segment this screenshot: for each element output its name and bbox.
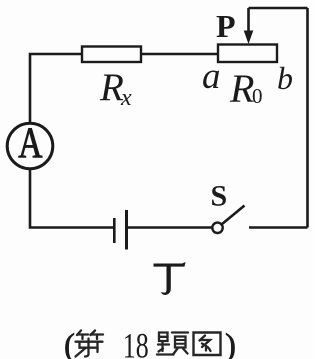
svg-text:0: 0: [252, 84, 263, 108]
svg-text:(: (: [64, 328, 75, 359]
svg-text:A: A: [18, 120, 42, 167]
svg-text:S: S: [211, 180, 228, 213]
svg-text:): ): [225, 328, 236, 359]
svg-text:18: 18: [123, 325, 149, 359]
svg-text:a: a: [202, 56, 221, 97]
svg-text:x: x: [120, 85, 132, 111]
svg-text:R: R: [229, 66, 254, 111]
svg-text:b: b: [277, 60, 293, 96]
svg-text:P: P: [216, 8, 236, 44]
